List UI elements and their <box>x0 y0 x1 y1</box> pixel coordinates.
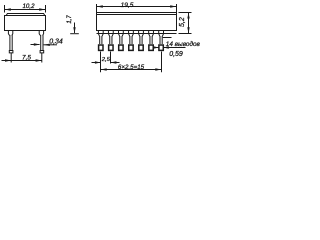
dimension 19.5 left arrow <box>97 5 103 7</box>
pin 3 tip section <box>119 45 123 50</box>
dimension 10.2 right arrow <box>39 8 45 10</box>
svg-text:14 выводов: 14 выводов <box>166 40 200 48</box>
dimension 7.5 line left outside arrow tail <box>2 60 12 62</box>
dimension 0.34 left arrow line <box>31 44 40 46</box>
leader line for 14 vyvodov <box>163 37 172 39</box>
pin 7 tip section <box>159 45 163 50</box>
svg-text:10,2: 10,2 <box>22 3 35 10</box>
pin 2 tip section <box>109 45 113 50</box>
dimension 7.5 right arrowhead <box>36 59 42 61</box>
right view pin 4 <box>129 31 134 45</box>
dimension 5.2 bottom arrow <box>187 27 189 33</box>
pin 4 tip section <box>129 45 133 50</box>
dimension 2.5 left arrow tail <box>92 62 101 64</box>
dimension 7.5 main line <box>11 60 42 62</box>
dimension 1.7 vertical line <box>74 23 76 34</box>
dimension 7.5 extension lines <box>11 53 42 63</box>
dimension 2.5 right arrowhead <box>111 61 117 63</box>
dimension 5.2 top arrow <box>187 13 189 19</box>
dimension 10.2 extension lines <box>5 5 46 13</box>
right view pin 3 <box>119 31 124 45</box>
svg-text:1,7: 1,7 <box>67 15 73 24</box>
dimension 15 left arrow <box>101 68 107 70</box>
dimension 10.2 left arrow <box>5 8 11 10</box>
dimension 19.5 line <box>97 6 177 8</box>
right view pin 1 <box>98 31 103 45</box>
svg-text:6×2,5=15: 6×2,5=15 <box>118 64 145 71</box>
dimension 1.7 base tick <box>70 33 79 35</box>
left view right pin foot <box>40 51 44 53</box>
dimension 0.34 right shelf line <box>44 44 57 46</box>
dimension 0.59 right arrowhead <box>163 46 168 48</box>
dimension 5.2 vertical line <box>188 13 190 34</box>
left view right pin shoulder <box>39 31 43 36</box>
right view pin 5 <box>139 31 144 45</box>
dimension 19.5 right arrow <box>170 5 176 7</box>
pin 1 tip section <box>99 45 103 50</box>
svg-text:0,59: 0,59 <box>169 51 183 58</box>
svg-text:7,5: 7,5 <box>22 55 31 62</box>
left view left pin foot <box>9 51 13 53</box>
svg-text:2,5: 2,5 <box>101 57 111 63</box>
dimension 0.59 left arrow line <box>153 47 159 49</box>
right view pin 2 <box>108 31 113 45</box>
dimension 10.2 line <box>5 9 46 11</box>
svg-text:19,5: 19,5 <box>121 2 134 9</box>
dimension 0.59 right shelf line <box>163 47 185 49</box>
svg-text:5,2: 5,2 <box>179 17 186 27</box>
dimension 7.5 left arrowhead <box>5 59 11 61</box>
left view package body <box>5 16 46 31</box>
dimension 2.5 right arrow tail <box>111 62 120 64</box>
dimension 2.5 left arrowhead <box>95 61 101 63</box>
left view left pin shoulder <box>8 31 12 36</box>
dimension 19.5 extension lines <box>97 4 177 12</box>
dimension 5.2 extension lines <box>179 13 192 34</box>
dimension 0.34 left arrowhead <box>34 43 40 45</box>
pin 6 tip section <box>149 45 153 50</box>
right view pin 6 <box>149 31 154 45</box>
right view pin 7 <box>159 31 164 45</box>
right view cap seam line <box>97 14 177 16</box>
left view package cap <box>6 14 45 16</box>
pin 5 tip section <box>139 45 143 50</box>
dimension 2.5 extension lines <box>101 52 111 64</box>
svg-text:0,34: 0,34 <box>49 39 63 46</box>
dimension 1.7 down arrowhead <box>73 27 75 33</box>
dimension 15 extension lines <box>101 52 162 73</box>
left view left pin lead <box>10 35 12 51</box>
right view body <box>97 13 177 31</box>
left view right pin lead <box>41 35 43 51</box>
dimension 0.59 left arrowhead <box>153 46 158 48</box>
dimension 15 line <box>101 69 162 71</box>
right view seating line <box>97 33 177 35</box>
dimension 15 right arrow <box>155 68 161 70</box>
dimension 0.34 right arrowhead <box>44 44 50 46</box>
